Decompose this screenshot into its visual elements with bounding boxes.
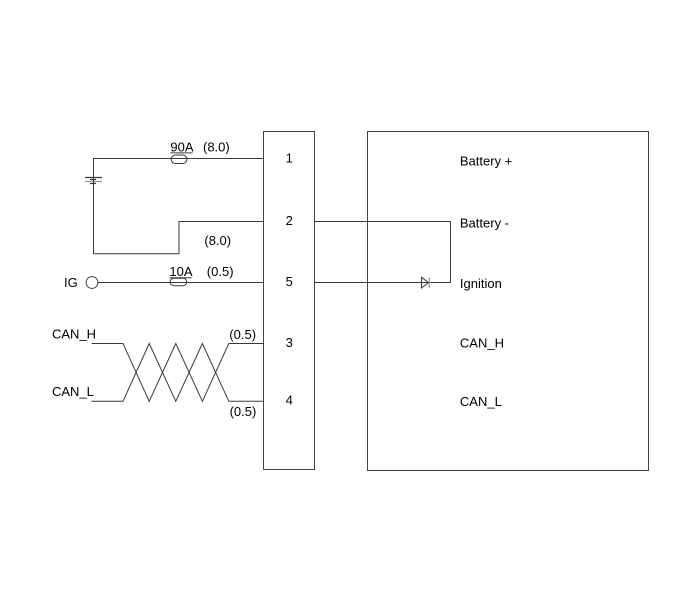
fuse F1 90A [171,155,187,164]
svg-text:IG: IG [64,275,78,290]
wire: internal node battery- / ignition [450,222,452,284]
svg-text:Ignition: Ignition [460,276,502,291]
wire: battery - to pin 2 [94,177,264,254]
svg-text:CAN_L: CAN_L [52,384,94,399]
label: 10A [169,264,192,279]
svg-text:(8.0): (8.0) [203,140,230,155]
svg-text:(0.5): (0.5) [229,327,256,342]
svg-text:1: 1 [286,150,293,165]
svg-text:CAN_H: CAN_H [460,336,504,351]
connector J1 [264,132,315,470]
svg-text:10A: 10A [169,264,192,279]
wire: CAN_H twisted pair to pin 3 [92,344,264,402]
diode D1 [422,277,430,288]
svg-text:2: 2 [286,213,293,228]
label: 90A [170,140,193,155]
svg-text:90A: 90A [170,140,193,155]
svg-text:Battery -: Battery - [460,216,509,231]
svg-text:Battery +: Battery + [460,154,512,169]
terminal IG [86,277,98,289]
fuse F2 10A [170,278,187,286]
wire: battery + to pin 1 [94,159,264,178]
svg-text:4: 4 [286,393,293,408]
svg-text:5: 5 [286,274,293,289]
wire: pin 2 to module battery - [315,221,452,223]
svg-text:CAN_H: CAN_H [52,327,96,342]
wire: CAN_L twisted pair to pin 4 [92,344,264,402]
wire: pin 5 to module ignition [315,282,452,284]
module box U1 [368,132,649,471]
battery B1 [85,178,102,184]
svg-text:(0.5): (0.5) [207,264,234,279]
svg-text:3: 3 [286,335,293,350]
svg-text:(8.0): (8.0) [204,233,231,248]
svg-text:CAN_L: CAN_L [460,394,502,409]
svg-text:(0.5): (0.5) [230,404,257,419]
wire: IG to pin 5 [98,282,264,284]
